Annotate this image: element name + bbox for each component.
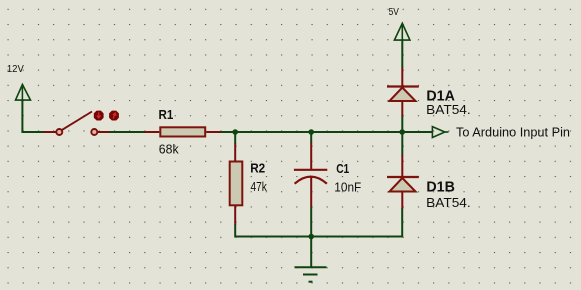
wire D1A to node	[401, 116, 403, 132]
wire 5V to D1A	[401, 40, 403, 68]
svg-text:R2: R2	[250, 160, 265, 175]
ground	[295, 267, 327, 281]
wire main net to output	[221, 131, 432, 133]
svg-text:R1: R1	[159, 107, 174, 122]
svg-text:BAT54.: BAT54.	[426, 195, 471, 210]
diode D1A	[387, 68, 419, 117]
output terminal arrow	[432, 127, 448, 138]
junction at C1 top	[308, 129, 314, 135]
wire bottom net	[235, 208, 402, 237]
wire to ground	[310, 237, 312, 268]
svg-text:To Arduino Input Pin: To Arduino Input Pin	[456, 125, 570, 140]
junction at bottom rail	[308, 234, 314, 240]
junction at diode node	[399, 129, 405, 135]
capacitor C1	[294, 142, 327, 207]
power symbol 12V	[16, 85, 31, 101]
wire C1 bottom	[310, 207, 312, 237]
svg-text:12V: 12V	[7, 64, 24, 75]
diode D1B	[387, 155, 419, 209]
svg-text:BAT54.: BAT54.	[426, 102, 471, 117]
svg-text:D1B: D1B	[426, 179, 455, 196]
wire C1 top	[310, 132, 312, 143]
wire 12V to switch	[22, 100, 44, 132]
svg-text:C1: C1	[336, 161, 349, 176]
wire switch to R1	[109, 131, 145, 133]
junction at R2 top	[232, 129, 238, 135]
svg-text:10nF: 10nF	[334, 179, 361, 194]
svg-text:5V: 5V	[389, 7, 400, 18]
switch SW1	[44, 111, 119, 135]
wire node to terminal	[404, 131, 433, 133]
resistor R2	[230, 144, 243, 226]
wire node to D1B	[401, 132, 403, 156]
svg-text:47k: 47k	[251, 179, 268, 194]
power symbol 5V	[394, 23, 410, 40]
resistor R1	[145, 127, 222, 136]
svg-text:68k: 68k	[159, 141, 179, 156]
wire R2 top	[234, 132, 236, 144]
